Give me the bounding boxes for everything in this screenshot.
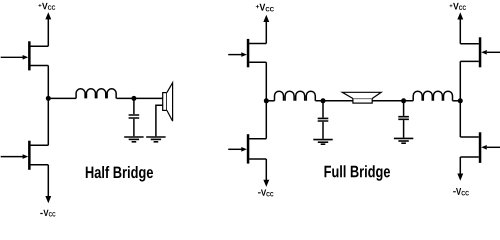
transistor Q3 (full bridge left upper): [228, 39, 266, 67]
wire: Q5 source to Q6 drain (full bridge right column): [459, 61, 461, 137]
capacitor C2 (full bridge left filter): [318, 101, 329, 139]
node: full-bridge left midpoint junction: [264, 98, 269, 103]
inductor L1 (half bridge output filter): [76, 89, 116, 99]
transistor Q4 (full bridge left lower): [228, 134, 266, 163]
wire: inductor L2 to speaker LS2: [315, 100, 353, 102]
speaker LS1 (half bridge, vertical): [163, 83, 173, 121]
transistor Q6 (full bridge right lower): [460, 132, 500, 163]
+Vcc supply arrow (half bridge): [45, 12, 51, 46]
node: full-bridge left capacitor junction: [321, 98, 326, 103]
+Vcc supply arrow (full bridge left): [263, 15, 269, 44]
+Vcc label (half bridge): [38, 3, 55, 10]
ground (speaker LS1): [146, 137, 165, 142]
wire: left midpoint node to inductor L2: [266, 100, 274, 102]
wire: speaker LS2 to right capacitor node: [372, 100, 413, 102]
-Vcc supply arrow (full bridge right): [457, 157, 463, 181]
inductor L2 (full bridge left filter): [275, 91, 316, 101]
node: filter capacitor junction: [131, 96, 136, 101]
wire: midpoint node to inductor L1: [48, 97, 76, 99]
transistor Q5 (full bridge right upper): [460, 37, 500, 67]
node: half-bridge midpoint junction: [46, 96, 51, 101]
wire: inductor L3 to right midpoint node: [453, 100, 461, 102]
capacitor C1 (half bridge filter): [129, 98, 140, 136]
ground (C2): [313, 140, 332, 145]
transistor Q1 (half bridge upper): [1, 41, 49, 70]
transistor Q2 (half bridge lower): [1, 141, 49, 170]
wire: Q3 source to Q4 drain (full bridge left column): [265, 62, 267, 138]
title: Full Bridge: [325, 165, 391, 181]
title: Half Bridge: [86, 166, 153, 182]
+Vcc label (full bridge right): [450, 3, 467, 10]
-Vcc label (half bridge): [40, 210, 55, 217]
speaker LS2 (full bridge, horizontal): [342, 92, 381, 103]
wire: speaker LS1 return to ground: [156, 105, 163, 136]
ground (C3): [394, 138, 413, 143]
node: full-bridge right midpoint junction: [458, 98, 463, 103]
-Vcc supply arrow (half bridge): [45, 165, 51, 203]
inductor L3 (full bridge right filter): [413, 91, 452, 101]
-Vcc supply arrow (full bridge left): [263, 159, 269, 187]
capacitor C3 (full bridge right filter): [398, 101, 409, 138]
node: full-bridge right capacitor junction: [401, 98, 406, 103]
ground (C1): [124, 137, 143, 142]
-Vcc label (full bridge left): [258, 190, 274, 197]
+Vcc label (full bridge left): [256, 4, 274, 12]
wire: Q1 source to Q2 drain (half bridge column): [47, 66, 49, 146]
wire: inductor L1 to speaker: [116, 97, 162, 99]
-Vcc label (full bridge right): [453, 188, 469, 195]
+Vcc supply arrow (full bridge right): [457, 12, 463, 43]
